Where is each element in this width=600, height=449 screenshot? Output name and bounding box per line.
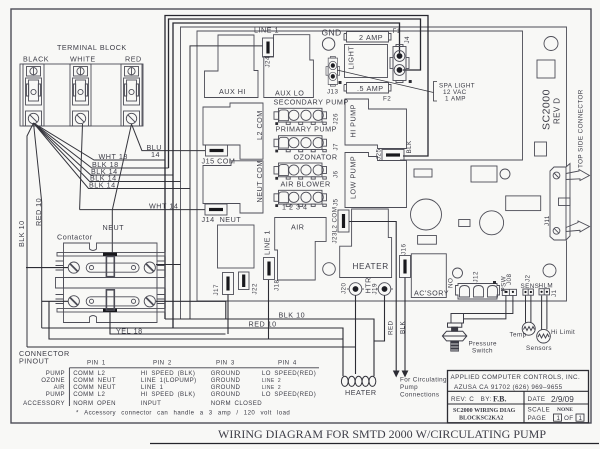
connector J18 [264, 258, 275, 280]
wire W1 WHT18 up/over to J25 [165, 16, 428, 320]
mounting hole [544, 37, 558, 51]
svg-text:BLACK: BLACK [23, 55, 49, 64]
connector J4 [390, 45, 409, 83]
relay NEUT COM [203, 161, 263, 213]
svg-text:J18: J18 [274, 280, 281, 291]
wire J19 down to coil [374, 296, 385, 342]
contactor body [64, 243, 158, 323]
svg-text:HEATER: HEATER [353, 262, 389, 271]
svg-text:LINE 1(LOPUMP): LINE 1(LOPUMP) [141, 377, 197, 384]
connector J23 [338, 210, 349, 232]
terminal BLACK [23, 64, 44, 126]
connector J7 [274, 136, 327, 153]
svg-text:PIN 3: PIN 3 [216, 360, 235, 367]
wire BLU14 from RED terminal to J15 [132, 124, 206, 151]
relay HI PUMP [345, 99, 407, 149]
contactor fins [56, 261, 166, 304]
fuse F2 .5 AMP [344, 83, 391, 94]
spa light callout [337, 70, 437, 101]
svg-text:NONE: NONE [557, 407, 573, 413]
wire W2 BLK18 to J4 pin2 [169, 19, 421, 168]
svg-text:Sensors: Sensors [526, 345, 552, 352]
relay LOW PUMP [345, 153, 407, 208]
svg-text:APPLIED COMPUTER CONTROLS, INC: APPLIED COMPUTER CONTROLS, INC. [451, 374, 581, 381]
svg-text:PUMP: PUMP [46, 391, 65, 398]
svg-text:PIN 1: PIN 1 [87, 360, 106, 367]
svg-text:COMM L2: COMM L2 [73, 370, 105, 377]
svg-text:TERMINAL BLOCK: TERMINAL BLOCK [57, 43, 127, 52]
wire J23 RED arrow [349, 222, 396, 372]
connector J08 PSW [502, 289, 516, 295]
svg-text:L2 COM: L2 COM [332, 207, 339, 233]
wire WHT14 from WHITE terminal down [80, 124, 205, 210]
svg-text:INPUT: INPUT [141, 400, 161, 407]
title underline [150, 443, 599, 445]
svg-text:NEUT COM: NEUT COM [255, 160, 264, 202]
svg-text:LINE 2: LINE 2 [262, 378, 281, 384]
svg-text:J14 NEUT: J14 NEUT [202, 215, 242, 224]
svg-text:LINE 1: LINE 1 [263, 230, 272, 255]
wire bottom line b [49, 301, 343, 339]
wire PSW 2 [464, 296, 513, 314]
wire hi limit sensor [542, 296, 547, 330]
svg-text:J17: J17 [213, 284, 220, 295]
svg-text:Connections: Connections [400, 392, 439, 399]
svg-text:NO: NO [448, 278, 455, 288]
svg-text:GROUND: GROUND [211, 384, 241, 391]
jack J19 [376, 283, 393, 296]
svg-text:J13: J13 [327, 89, 338, 96]
svg-text:BLOCKSC2KA2: BLOCKSC2KA2 [459, 416, 503, 422]
svg-text:LIGHT: LIGHT [347, 46, 356, 70]
svg-text:RED 10: RED 10 [249, 320, 277, 329]
svg-text:OZONE: OZONE [41, 377, 65, 384]
svg-text:COMM NEUT: COMM NEUT [73, 377, 116, 384]
wire BLK14 b [34, 123, 181, 182]
wire RED10 line [42, 328, 343, 376]
wire J18 down [268, 280, 270, 339]
wire W3 BLK14 to J4 pin1 [173, 23, 400, 328]
svg-text:J4: J4 [404, 36, 411, 44]
wire NEUT drop to contactor [111, 210, 113, 253]
svg-text:RED: RED [125, 55, 142, 64]
svg-text:Contactor: Contactor [57, 233, 93, 242]
svg-text:PAGE: PAGE [528, 415, 547, 422]
RED arrow head [393, 371, 400, 378]
wire BLK10 line [165, 319, 374, 376]
svg-text:HI SPEED (BLK): HI SPEED (BLK) [141, 391, 195, 398]
terminal RED [121, 64, 142, 126]
BLK arrow head [402, 371, 409, 378]
svg-text:Hi Limit: Hi Limit [551, 329, 575, 336]
wire BLK10 from BLACK terminal [27, 123, 34, 347]
relay LIGHT [345, 45, 388, 78]
svg-text:LINE 1: LINE 1 [254, 26, 279, 35]
connector J12 [456, 284, 500, 300]
svg-text:LOW PUMP: LOW PUMP [349, 156, 358, 199]
wire BLK14 a [34, 123, 174, 175]
Hi Limit sensor [537, 329, 551, 343]
svg-text:J2: J2 [525, 274, 532, 282]
svg-text:OZONATOR: OZONATOR [294, 153, 338, 162]
svg-text:J11: J11 [544, 215, 551, 226]
svg-text:RED 10: RED 10 [34, 198, 43, 226]
connector J25 [382, 150, 404, 161]
svg-text:.5 AMP: .5 AMP [357, 84, 384, 93]
svg-text:F1: F1 [393, 28, 401, 35]
box AIR [275, 218, 326, 281]
svg-text:Temp: Temp [510, 332, 527, 339]
svg-text:F2: F2 [383, 96, 391, 103]
svg-text:HLM: HLM [539, 283, 554, 290]
svg-text:For Circulating: For Circulating [400, 377, 447, 384]
wire RED10 from BLACK terminal [34, 123, 42, 328]
heater coil [341, 376, 375, 386]
svg-text:14: 14 [151, 150, 160, 159]
fuse F1 2 AMP [344, 32, 391, 43]
connector J11 [550, 164, 590, 241]
svg-text:J23: J23 [332, 232, 339, 243]
svg-text:NORM OPEN: NORM OPEN [73, 400, 116, 407]
svg-text:J12: J12 [473, 271, 480, 282]
svg-text:J22: J22 [252, 283, 259, 294]
svg-text:J19: J19 [372, 283, 379, 294]
svg-text:BLK: BLK [406, 140, 413, 154]
connector J5 [274, 190, 327, 207]
svg-text:Switch: Switch [472, 348, 493, 355]
connector J6 [274, 163, 327, 180]
contactor row1 [68, 256, 155, 276]
transformer box [218, 225, 255, 268]
connector J16 [400, 256, 411, 278]
connector J15 [206, 145, 228, 156]
svg-text:GND: GND [322, 28, 342, 38]
wire contactor left row1 [26, 267, 68, 269]
svg-text:COMM NEUT: COMM NEUT [73, 384, 116, 391]
connector J1 HLM [539, 289, 550, 295]
svg-text:J15 COM: J15 COM [202, 157, 236, 166]
svg-text:* Accessory connector can hand: * Accessory connector can handle a 3 amp… [76, 410, 290, 417]
contactor top rail [57, 253, 165, 257]
svg-text:1 2 3 4: 1 2 3 4 [282, 203, 307, 212]
svg-text:WHT 14: WHT 14 [149, 202, 178, 211]
svg-text:2/9/09: 2/9/09 [551, 395, 574, 404]
svg-text:AZUSA CA 91702 (626) 969–9655: AZUSA CA 91702 (626) 969–9655 [454, 384, 563, 391]
pressure switch body [442, 314, 466, 352]
svg-text:PUMP: PUMP [46, 370, 65, 377]
svg-text:BLK 10: BLK 10 [17, 220, 26, 247]
svg-text:REV D: REV D [553, 98, 562, 124]
contactor mid band [56, 278, 166, 289]
connector J14 [205, 204, 227, 215]
svg-text:YEL 18: YEL 18 [116, 327, 143, 336]
svg-text:J1: J1 [551, 289, 558, 297]
svg-text:OF: OF [564, 415, 574, 422]
relay L2 COM [203, 103, 263, 159]
svg-text:J24: J24 [265, 56, 272, 67]
small circle near NO [453, 268, 463, 278]
pad square [537, 60, 555, 78]
wire contactor right row2 [156, 301, 226, 319]
svg-text:J5: J5 [333, 198, 340, 206]
svg-text:DATE: DATE [528, 396, 546, 403]
svg-text:PINOUT: PINOUT [19, 357, 49, 366]
svg-text:REV: C BY:: REV: C BY: [451, 396, 492, 403]
svg-text:2 AMP: 2 AMP [359, 33, 383, 42]
contactor dark rail contacts [103, 253, 117, 256]
svg-text:HEATER: HEATER [345, 388, 377, 397]
relay labels [219, 46, 449, 298]
svg-text:HI PUMP: HI PUMP [349, 104, 358, 137]
svg-text:LINE 1: LINE 1 [141, 384, 164, 391]
svg-text:NORM CLOSED: NORM CLOSED [211, 400, 263, 407]
connector J24 [263, 38, 274, 68]
svg-text:PSW: PSW [501, 276, 508, 292]
jack J20 [347, 283, 364, 296]
contactor bottom rail [57, 309, 165, 313]
svg-text:J6: J6 [333, 170, 340, 178]
svg-text:GROUND: GROUND [211, 391, 241, 398]
svg-text:BLK 10: BLK 10 [279, 311, 306, 320]
terminal WHITE [70, 64, 91, 126]
svg-text:J25: J25 [376, 149, 383, 160]
connector J22 [239, 272, 250, 290]
svg-text:PIN 2: PIN 2 [153, 360, 172, 367]
inner component area [197, 31, 523, 301]
wire PSW 1 [464, 296, 506, 319]
wire J17 down [227, 295, 229, 335]
svg-text:NEUT: NEUT [103, 223, 125, 232]
wire LINE1 to J24 [190, 46, 263, 319]
svg-text:PIN 4: PIN 4 [278, 360, 297, 367]
wire bottom line c [27, 346, 356, 348]
svg-text:HI SPEED (BLK): HI SPEED (BLK) [141, 370, 195, 377]
wire J16 BLK arrow [404, 278, 406, 372]
svg-text:SCALE: SCALE [528, 407, 551, 414]
svg-text:SC2000: SC2000 [541, 89, 553, 130]
terminal block body [20, 55, 143, 127]
svg-text:RED: RED [388, 320, 395, 335]
box AC'SORY [411, 254, 446, 298]
svg-text:GROUND: GROUND [211, 377, 241, 384]
svg-text:AUX HI: AUX HI [219, 87, 246, 96]
svg-text:J26: J26 [333, 113, 340, 124]
GND pad circle [322, 38, 334, 50]
svg-text:AUX LO: AUX LO [275, 89, 304, 98]
svg-text:Pump: Pump [400, 384, 418, 391]
svg-text:SECONDARY PUMP: SECONDARY PUMP [274, 98, 349, 107]
svg-text:AIR: AIR [54, 384, 66, 391]
svg-text:WIRING DIAGRAM FOR SMTD 2000 W: WIRING DIAGRAM FOR SMTD 2000 W/CIRCULATI… [218, 427, 546, 441]
relay AUX HI [205, 35, 259, 98]
wire contactor right row1 to board [156, 264, 181, 266]
svg-text:J16: J16 [401, 244, 408, 255]
svg-text:LO SPEED(RED): LO SPEED(RED) [262, 391, 316, 398]
connector J17 [223, 273, 234, 295]
relay HEATER [340, 209, 392, 278]
svg-text:LO SPEED(RED): LO SPEED(RED) [262, 370, 316, 377]
svg-text:AC'SORY: AC'SORY [414, 289, 449, 298]
svg-text:BLK: BLK [400, 320, 407, 334]
svg-text:SENS: SENS [521, 283, 540, 290]
svg-text:Pressure: Pressure [469, 341, 497, 348]
relay AUX LO [264, 35, 314, 98]
contactor row2 [68, 290, 155, 310]
svg-text:J7: J7 [333, 143, 340, 151]
wire contactor left row2 [42, 300, 68, 302]
wire J20 down to coil [355, 296, 357, 375]
board outline [181, 27, 567, 319]
title [218, 427, 546, 441]
connector J2 SENS [523, 289, 534, 295]
svg-text:BLK 14: BLK 14 [89, 181, 116, 190]
svg-text:ACCESSORY: ACCESSORY [23, 400, 65, 407]
wire YEL18 [110, 313, 226, 335]
svg-text:L2 COM: L2 COM [255, 110, 264, 140]
wire BLK14 c [34, 123, 191, 189]
svg-text:AIR BLOWER: AIR BLOWER [281, 180, 331, 189]
wire temp sensor [526, 296, 531, 323]
svg-text:SC2000 WIRING DIAG: SC2000 WIRING DIAG [453, 408, 516, 414]
svg-text:AIR: AIR [291, 223, 304, 232]
wire BLK18 from BLACK terminal [34, 123, 169, 168]
misc board shapes [323, 166, 556, 277]
svg-text:J20: J20 [341, 283, 348, 294]
wire WHT18 from BLACK terminal [34, 123, 166, 160]
svg-text:COMM L2: COMM L2 [73, 391, 105, 398]
svg-text:TOP SIDE CONNECTOR: TOP SIDE CONNECTOR [578, 89, 585, 168]
svg-text:1 AMP: 1 AMP [445, 96, 466, 103]
svg-text:GROUND: GROUND [211, 370, 241, 377]
small square [535, 142, 547, 156]
wire RED terminal to NEUT junction [112, 124, 131, 210]
Temp sensor [522, 322, 535, 335]
svg-text:WHITE: WHITE [70, 55, 96, 64]
svg-text:PRIMARY PUMP: PRIMARY PUMP [276, 125, 337, 134]
wire labels [17, 143, 178, 247]
connector J26 [274, 108, 327, 125]
connector J13 [326, 57, 340, 87]
svg-text:F.B.: F.B. [493, 395, 507, 404]
